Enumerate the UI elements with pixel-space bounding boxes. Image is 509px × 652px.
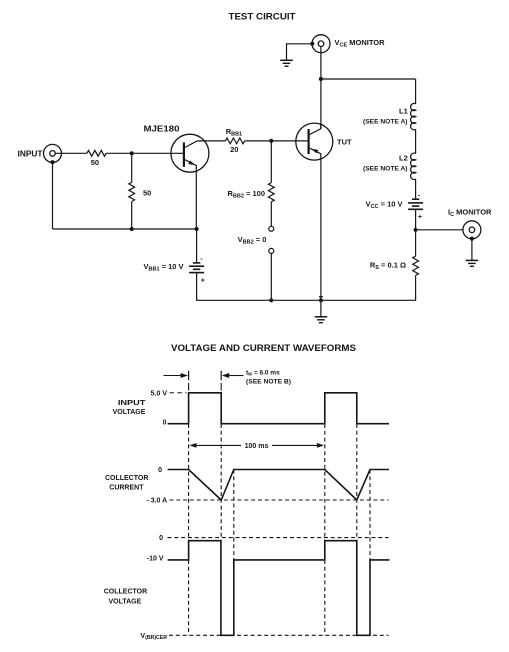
svg-text:VOLTAGE AND CURRENT WAVEFORMS: VOLTAGE AND CURRENT WAVEFORMS: [171, 343, 356, 353]
tick at pulse rise: [188, 371, 190, 380]
battery VCC: [408, 199, 423, 209]
svg-text:TUT: TUT: [337, 137, 352, 146]
transistor MJE180 emitter arrow: [188, 161, 195, 166]
transistor TUT emitter: [309, 148, 321, 160]
wire VCE connector down to TUT collector: [320, 47, 322, 129]
dashed vertical at first current zero: [233, 470, 235, 560]
svg-text:VOLTAGE: VOLTAGE: [109, 598, 142, 605]
wire RBB2 bottom to terminal: [270, 202, 272, 227]
svg-text:tw = 6.0 ms: tw = 6.0 ms: [246, 369, 280, 377]
transistor TUT circle: [296, 123, 333, 160]
wire L2 to VCC battery: [415, 179, 417, 199]
svg-text:0: 0: [159, 535, 163, 542]
svg-text:0: 0: [163, 420, 167, 427]
svg-text:5.0 V: 5.0 V: [151, 390, 168, 397]
wire IC connector to ground: [471, 239, 473, 261]
inductor L1: [411, 103, 416, 129]
arrowhead right: [181, 373, 188, 378]
wire to VCE ground vertical: [286, 43, 288, 60]
svg-text:RBB1: RBB1: [226, 127, 242, 138]
connector VCE MONITOR: [312, 35, 330, 53]
dashed vertical at second rise: [324, 424, 326, 635]
transistor MJE180 collector: [184, 141, 226, 148]
svg-text:VBB1 = 10 V: VBB1 = 10 V: [143, 262, 183, 273]
dashes after 5.0 V: [170, 392, 187, 394]
dashed vertical at first rise: [188, 424, 190, 635]
svg-text:IC MONITOR: IC MONITOR: [448, 208, 492, 219]
collector voltage trace: [168, 541, 390, 636]
wire to IC MONITOR connector: [416, 229, 464, 231]
wire INPUT connector down: [52, 162, 54, 229]
node junction below VCE connector: [319, 77, 323, 81]
node VBB1 top junction: [195, 227, 199, 231]
ground at bottom rail: [315, 317, 328, 323]
connector INPUT: [44, 144, 62, 162]
svg-text:L1: L1: [399, 106, 408, 115]
svg-text:V(BR)CER: V(BR)CER: [140, 633, 167, 641]
svg-text:COLLECTOR: COLLECTOR: [104, 588, 147, 595]
svg-text:RS = 0.1 Ω: RS = 0.1 Ω: [370, 260, 406, 271]
terminal VBB2 lower: [269, 248, 274, 253]
connector IC MONITOR: [463, 221, 481, 239]
ground at VCE monitor: [280, 60, 293, 66]
node at VCE connector: [310, 42, 314, 46]
wire RBB1 to TUT base: [245, 140, 309, 142]
svg-text:TEST CIRCUIT: TEST CIRCUIT: [229, 11, 297, 21]
wire ground junction down: [320, 300, 322, 317]
node shunt bottom: [130, 227, 134, 231]
wire INPUT connector right: [56, 152, 87, 154]
wire IC node down to RS: [415, 230, 417, 256]
inductor L2: [411, 153, 416, 179]
svg-text:L2: L2: [399, 153, 408, 162]
wire bottom rail: [196, 299, 416, 301]
wire to VCE ground horizontal: [287, 43, 313, 45]
dimension line 100 ms left part: [195, 444, 241, 446]
svg-text:(SEE NOTE A): (SEE NOTE A): [363, 166, 408, 173]
transistor TUT emitter arrow: [311, 149, 318, 154]
arrow pointing right at rise: [164, 375, 183, 377]
svg-text:20: 20: [230, 145, 238, 154]
svg-text:(SEE NOTE B): (SEE NOTE B): [246, 379, 291, 386]
wire VCC battery to IC node: [415, 209, 417, 230]
transistor TUT base bar: [308, 129, 310, 154]
wire VBB2 terminal to bottom rail: [270, 253, 272, 300]
wire TUT emitter down to rail: [320, 158, 322, 300]
dash below rise tick: [188, 383, 190, 391]
wire top horizontal to right branch: [321, 78, 416, 80]
svg-text:RBB2 = 100: RBB2 = 100: [228, 189, 266, 200]
svg-text:COLLECTOR: COLLECTOR: [105, 475, 148, 482]
wire right branch top: [415, 79, 417, 104]
transistor MJE180 emitter: [184, 159, 196, 229]
wire VBB1 branch top: [196, 229, 198, 263]
node IC junction: [414, 228, 418, 232]
resistor 50 shunt: [129, 182, 135, 201]
dashed vertical at first fall: [220, 424, 222, 541]
dimension line 100 ms right part: [272, 444, 319, 446]
node TUT emitter ground junction: [319, 298, 323, 302]
arrowhead left: [222, 373, 229, 378]
node at shunt resistor top: [130, 151, 134, 155]
svg-text:VCE MONITOR: VCE MONITOR: [335, 38, 386, 49]
svg-text:INPUT: INPUT: [18, 149, 43, 158]
svg-text:VOLTAGE: VOLTAGE: [113, 409, 146, 416]
arrowhead 100ms left: [189, 443, 196, 448]
svg-text:50: 50: [91, 158, 99, 167]
svg-text:-: -: [418, 192, 421, 199]
svg-text:-: -: [200, 256, 203, 263]
svg-text:- 3.0 A: - 3.0 A: [146, 497, 167, 504]
tick at pulse fall: [220, 371, 222, 380]
node below IC connector: [470, 237, 474, 241]
transistor MJE180 base bar: [183, 142, 185, 166]
svg-text:INPUT: INPUT: [118, 400, 146, 407]
node RBB2 top junction: [269, 139, 273, 143]
svg-text:100 ms: 100 ms: [245, 443, 269, 450]
terminal VBB2 upper: [269, 226, 274, 231]
arrow pointing left at fall: [228, 375, 244, 377]
node below INPUT connector: [50, 160, 54, 164]
svg-text:(SEE NOTE A): (SEE NOTE A): [363, 119, 408, 126]
svg-text:+: +: [201, 278, 205, 285]
wire shunt top: [131, 153, 133, 182]
wire VBB1 bottom: [196, 273, 198, 301]
dashed 0 voltage level: [168, 537, 389, 539]
resistor RBB1: [225, 138, 244, 144]
ground at IC monitor: [466, 260, 479, 266]
dashed -3.0 A level: [170, 499, 389, 501]
svg-text:0: 0: [158, 467, 162, 474]
wire series resistor to MJE base: [106, 152, 184, 154]
dashed vertical at second fall: [356, 424, 358, 541]
dashed vertical at second current zero: [369, 470, 371, 560]
svg-text:-10 V: -10 V: [147, 556, 164, 563]
collector current trace: [168, 470, 389, 501]
wire shunt bottom: [131, 202, 133, 230]
svg-text:50: 50: [143, 189, 151, 198]
resistor RBB2: [268, 183, 274, 202]
emitter tick above ground junction: [319, 296, 323, 298]
svg-text:VBB2 = 0: VBB2 = 0: [238, 235, 267, 246]
svg-text:VCC = 10 V: VCC = 10 V: [366, 199, 403, 210]
wire RBB2 branch top: [270, 141, 272, 183]
resistor RS: [413, 256, 419, 275]
transistor MJE180 circle: [171, 134, 209, 172]
svg-text:CURRENT: CURRENT: [109, 485, 144, 492]
arrowhead 100ms right: [317, 443, 324, 448]
input voltage trace: [168, 393, 389, 424]
transistor TUT collector: [309, 123, 321, 135]
battery VBB1: [189, 263, 204, 273]
wire between L1 and L2: [415, 129, 417, 153]
resistor 50 series: [87, 150, 106, 156]
wire bottom-left rail: [53, 228, 197, 230]
svg-text:MJE180: MJE180: [144, 124, 181, 133]
node VBB2 bottom: [269, 298, 273, 302]
svg-text:+: +: [418, 214, 422, 221]
dash below fall tick: [220, 383, 222, 391]
wire RS to bottom rail: [415, 275, 417, 300]
dashed VBRCER level: [169, 634, 389, 636]
